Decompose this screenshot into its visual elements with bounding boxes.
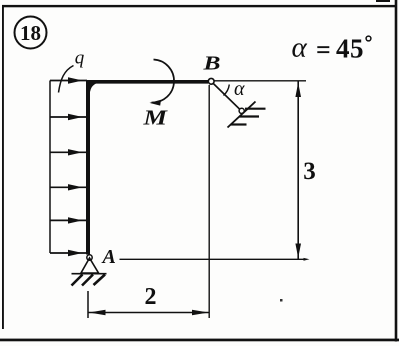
distributed load left line [49,81,51,254]
inclined ground line [228,102,256,128]
svg-text:q: q [75,47,85,68]
frame column member A to corner [86,81,90,255]
speck near dim 3 [280,299,283,302]
svg-text:18: 18 [20,21,41,45]
load arrow 6 [50,250,87,256]
page border top [2,5,397,7]
page border left [2,5,4,329]
ground line at A [72,273,107,275]
label q leader line [59,66,74,93]
dimension line 2 horizontal [89,312,210,314]
load arrow 4 [50,184,87,190]
roller hinge circle [239,108,244,113]
extension line right of A [120,258,307,260]
corner fillet [89,83,99,92]
smudge top right [376,0,390,2]
page border bottom [0,339,399,342]
load arrow 5 [50,217,87,223]
extension line below A [87,291,89,318]
dim 3 down arrowhead [295,244,301,259]
extension line right of B [215,80,307,82]
load arrow 3 [50,149,87,155]
pin hinge circle at A [87,255,92,260]
dim 3 up arrowhead [295,83,301,98]
svg-text:α: α [292,32,308,64]
extension line below B [208,85,210,318]
load arrow 2 [50,114,87,120]
svg-text:45: 45 [336,34,364,64]
ground hatch stroke 3 [231,123,247,125]
dim 2 left arrowhead [89,310,106,315]
hatch at A stroke 1 [72,275,83,286]
frame beam member corner to B [86,80,208,84]
ground hatch stroke 2 [240,115,260,117]
svg-text:M: M [142,106,168,130]
svg-text:3: 3 [303,158,316,185]
dimension line 3 vertical [297,82,299,260]
hatch at A stroke 2 [82,275,93,286]
degree circle [366,36,371,41]
svg-text:2: 2 [145,284,157,310]
pin support A triangle [81,258,99,273]
load arrow 1 [50,77,87,83]
task number 18 circle [15,17,47,49]
ground hatch stroke 1 [245,108,266,110]
angle arc alpha at B [224,85,230,96]
moment M arc [152,60,175,103]
moment M arrowhead [150,100,162,106]
svg-text:B: B [202,53,220,75]
roller link from B [213,84,240,110]
hinge circle at B [208,78,214,84]
hatch at A stroke 3 [94,275,106,286]
small arrow tip at right end of A extension [304,258,310,261]
dim 2 right arrowhead [192,310,209,315]
svg-text:A: A [101,246,116,268]
page border right [395,0,398,342]
